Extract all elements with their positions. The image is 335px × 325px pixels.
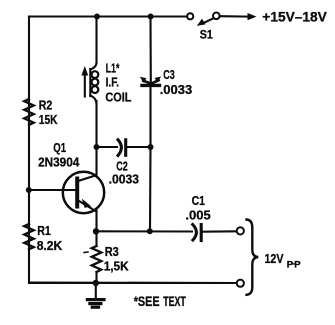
svg-text:R3: R3 — [105, 244, 119, 259]
svg-text:C1: C1 — [192, 194, 206, 208]
svg-text:L1*: L1* — [106, 62, 120, 76]
svg-text:Q1: Q1 — [53, 142, 66, 156]
svg-text:1,5K: 1,5K — [104, 259, 129, 274]
svg-text:R1: R1 — [37, 224, 51, 238]
svg-text:+15V–18V: +15V–18V — [262, 9, 326, 24]
svg-text:8.2K: 8.2K — [37, 239, 63, 253]
svg-text:*SEE: *SEE — [134, 294, 160, 309]
svg-text:TEXT: TEXT — [163, 295, 186, 309]
svg-text:2N3904: 2N3904 — [38, 155, 79, 170]
svg-text:.0033: .0033 — [109, 172, 139, 186]
svg-text:S1: S1 — [200, 29, 213, 41]
svg-text:12V: 12V — [265, 252, 284, 266]
svg-text:COIL: COIL — [105, 90, 131, 105]
svg-text:15K: 15K — [39, 114, 58, 127]
svg-text:I.F.: I.F. — [106, 77, 120, 90]
svg-text:.0033: .0033 — [160, 82, 192, 97]
svg-text:P: P — [294, 260, 301, 271]
svg-text:.005: .005 — [185, 208, 210, 223]
svg-text:C3: C3 — [163, 68, 174, 82]
svg-text:R2: R2 — [39, 99, 53, 113]
